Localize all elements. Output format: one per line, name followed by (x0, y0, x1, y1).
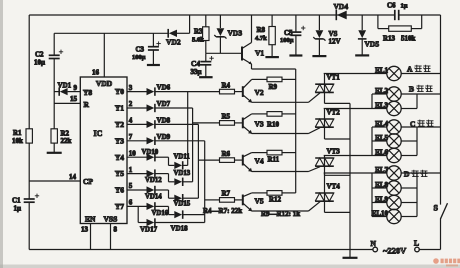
svg-text:VD8: VD8 (157, 116, 171, 124)
svg-text:CP: CP (83, 177, 93, 186)
svg-text:16: 16 (92, 69, 100, 77)
svg-text:VSS: VSS (104, 215, 118, 224)
svg-text:EL8: EL8 (375, 181, 388, 189)
svg-text:C2: C2 (35, 51, 44, 59)
svg-text:R4: R4 (222, 81, 231, 89)
svg-text:5.6k: 5.6k (192, 37, 204, 44)
svg-text:4: 4 (129, 117, 133, 125)
svg-text:1: 1 (129, 166, 133, 174)
svg-text:C3: C3 (136, 46, 145, 54)
svg-text:VD16: VD16 (152, 210, 169, 217)
svg-text:VD12: VD12 (145, 177, 162, 184)
svg-text:R12: R12 (269, 196, 282, 204)
svg-text:~220V: ~220V (383, 246, 407, 256)
svg-text:VD13: VD13 (174, 170, 191, 177)
svg-text:Y6: Y6 (115, 186, 124, 195)
svg-text:A: A (407, 65, 413, 74)
svg-text:R5: R5 (222, 113, 231, 121)
svg-text:Y5: Y5 (115, 169, 124, 178)
svg-text:VD2: VD2 (166, 38, 181, 47)
svg-text:10k: 10k (12, 137, 23, 145)
svg-text:EL10: EL10 (372, 209, 389, 217)
svg-text:EL4: EL4 (375, 120, 388, 128)
svg-text:R9: R9 (269, 83, 278, 91)
svg-text:4.7k: 4.7k (255, 35, 267, 42)
svg-text:EL7: EL7 (375, 166, 388, 174)
svg-text:C5: C5 (284, 29, 293, 37)
svg-text:Y7: Y7 (115, 202, 124, 211)
svg-text:EL3: EL3 (375, 101, 388, 109)
svg-text:8: 8 (114, 226, 118, 234)
svg-text:Y1: Y1 (115, 104, 124, 113)
svg-text:15: 15 (70, 95, 78, 103)
svg-text:VT2: VT2 (327, 108, 341, 116)
svg-text:IC: IC (94, 129, 103, 138)
svg-text:VD4: VD4 (334, 2, 349, 11)
svg-text:B: B (409, 85, 414, 94)
svg-text:R: R (84, 100, 90, 109)
svg-text:5: 5 (129, 182, 133, 190)
svg-text:100μ: 100μ (132, 54, 146, 61)
svg-text:S: S (434, 204, 439, 213)
svg-text:C: C (410, 119, 415, 128)
svg-text:12V: 12V (329, 38, 341, 46)
svg-text:V3: V3 (255, 119, 264, 128)
svg-text:Y0: Y0 (115, 87, 124, 96)
svg-text:Y2: Y2 (115, 120, 124, 129)
svg-text:V2: V2 (255, 88, 264, 97)
svg-text:14: 14 (69, 173, 77, 181)
svg-text:R6: R6 (222, 150, 231, 158)
svg-text:VD15: VD15 (174, 201, 191, 208)
svg-text:Y4: Y4 (115, 153, 124, 162)
svg-text:R1: R1 (13, 129, 22, 137)
svg-text:C1: C1 (12, 197, 21, 205)
svg-text:6: 6 (129, 199, 133, 207)
svg-text:VD9: VD9 (157, 133, 171, 141)
svg-text:EL6: EL6 (375, 148, 388, 156)
svg-text:R7: R7 (222, 190, 231, 198)
svg-text:10: 10 (129, 149, 137, 157)
svg-text:EL1: EL1 (375, 66, 388, 74)
svg-text:C6: C6 (387, 2, 396, 10)
svg-text:V1: V1 (255, 49, 264, 58)
svg-text:VD1: VD1 (58, 82, 72, 90)
svg-text:VD3: VD3 (228, 29, 243, 38)
svg-text:Y3: Y3 (115, 136, 124, 145)
svg-text:R8: R8 (257, 26, 266, 34)
svg-text:7: 7 (129, 133, 133, 141)
svg-text:R13: R13 (383, 35, 396, 43)
svg-text:VT4: VT4 (327, 182, 341, 190)
svg-text:100μ: 100μ (280, 37, 294, 44)
svg-text:1μ: 1μ (14, 205, 22, 213)
svg-text:33μ: 33μ (191, 68, 202, 76)
svg-text:V5: V5 (255, 196, 264, 205)
svg-text:EL5: EL5 (375, 134, 388, 142)
svg-text:510k: 510k (401, 35, 416, 43)
svg-text:22k: 22k (61, 137, 72, 145)
svg-text:VD18: VD18 (171, 225, 189, 233)
svg-text:R4—R7: 22k: R4—R7: 22k (203, 207, 242, 215)
svg-text:VDD: VDD (96, 79, 113, 88)
svg-text:VD7: VD7 (157, 100, 171, 108)
svg-text:Y8: Y8 (83, 88, 92, 97)
svg-text:1μ: 1μ (401, 3, 408, 10)
svg-text:3: 3 (129, 84, 133, 92)
svg-text:VT1: VT1 (327, 74, 341, 82)
svg-text:C4: C4 (191, 59, 200, 68)
svg-text:2: 2 (129, 100, 133, 108)
svg-text:VD14: VD14 (145, 194, 162, 201)
svg-text:R10: R10 (267, 121, 280, 129)
svg-text:EL9: EL9 (375, 195, 388, 203)
svg-text:L: L (414, 239, 419, 248)
svg-text:VD10: VD10 (142, 149, 159, 156)
svg-text:VT3: VT3 (327, 147, 341, 155)
svg-text:VD5: VD5 (365, 40, 380, 49)
svg-text:EL2: EL2 (375, 87, 388, 95)
svg-text:D: D (404, 170, 410, 179)
svg-text:13: 13 (81, 226, 89, 234)
svg-text:10μ: 10μ (34, 59, 45, 67)
svg-text:R11: R11 (268, 156, 280, 164)
svg-text:VD6: VD6 (157, 84, 171, 92)
svg-text:V4: V4 (255, 157, 264, 166)
svg-text:EN: EN (85, 215, 96, 224)
svg-text:9: 9 (74, 84, 78, 92)
svg-text:R3: R3 (194, 28, 203, 36)
svg-text:N: N (371, 239, 377, 248)
